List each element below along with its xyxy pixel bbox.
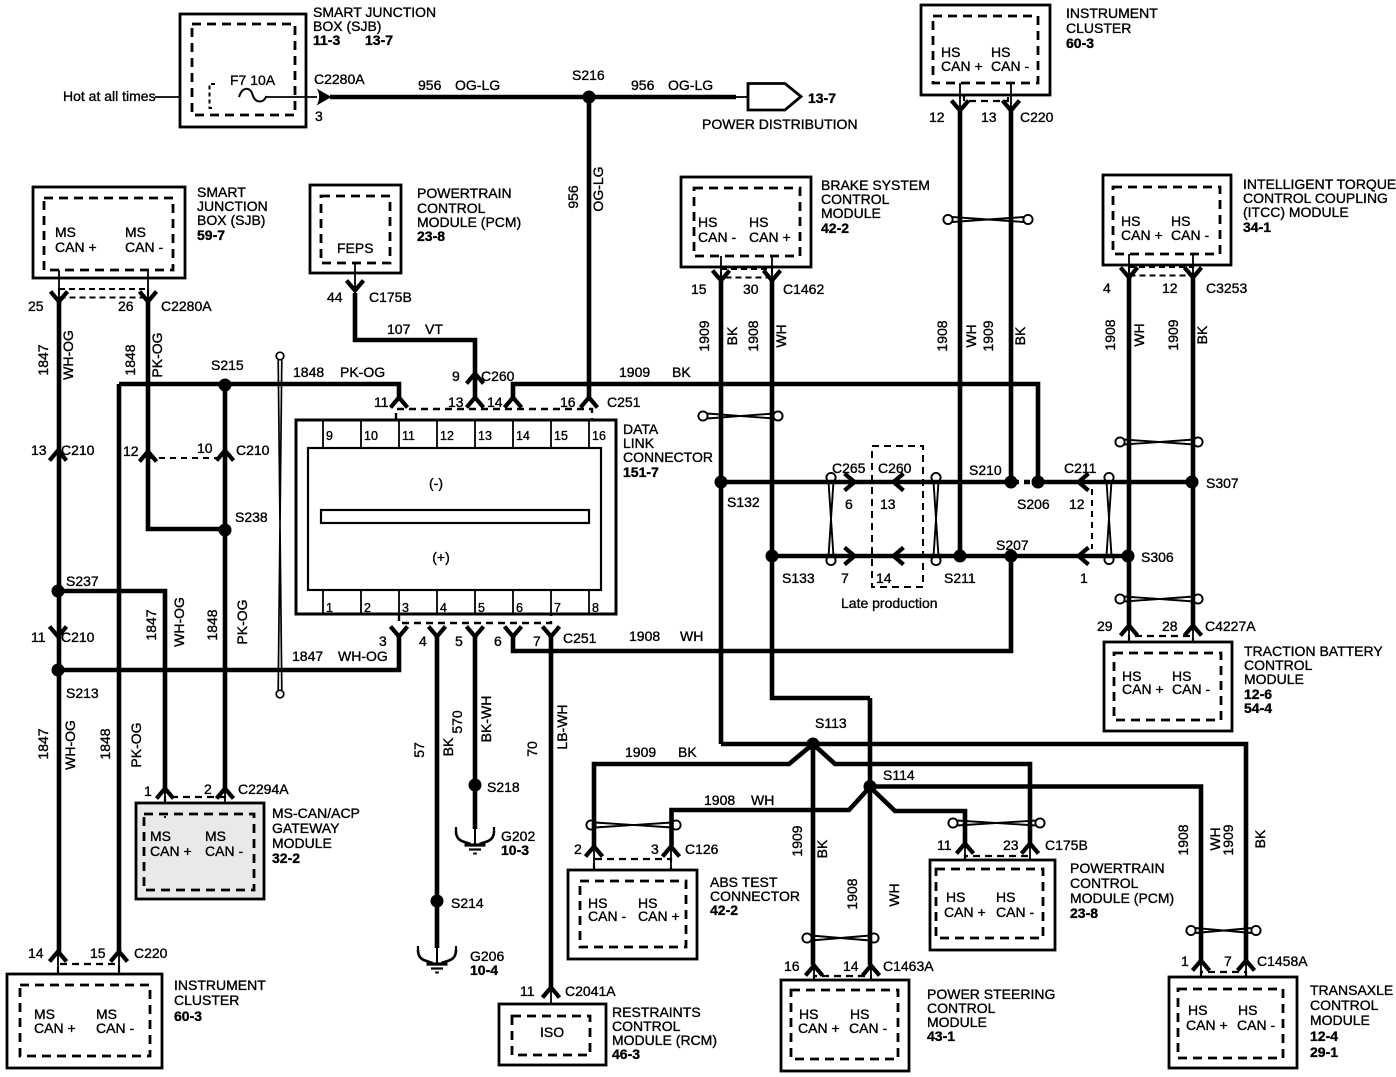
svg-text:16: 16	[784, 958, 800, 974]
svg-text:VT: VT	[425, 321, 443, 337]
connector C251 bottom pin at x=399	[391, 627, 408, 637]
wire ITCC CAN+ down to traction pin 29	[1127, 278, 1132, 625]
svg-text:26: 26	[118, 298, 134, 314]
svg-text:(+): (+)	[432, 549, 450, 565]
wire S114 branch to ABS pin 3	[672, 787, 871, 846]
svg-text:60-3: 60-3	[174, 1008, 202, 1024]
svg-text:9: 9	[326, 429, 333, 443]
connector C2294A pin 1	[157, 789, 174, 799]
wire brake CAN+ down to S133	[770, 281, 775, 556]
svg-text:1: 1	[144, 783, 152, 799]
wire gateway pin1 stub	[164, 790, 166, 816]
wire CAN+ S133 jog to S114 feed	[772, 556, 870, 698]
svg-text:PK-OG: PK-OG	[340, 364, 385, 380]
twisted pair C211	[1104, 473, 1113, 564]
svg-text:C260: C260	[878, 460, 912, 476]
svg-text:46-3: 46-3	[612, 1046, 640, 1062]
wire gateway pin2 stub	[224, 790, 226, 816]
connector C1463A dashed bracket	[814, 976, 871, 980]
svg-text:C1462: C1462	[783, 281, 824, 297]
splice S238	[219, 524, 232, 537]
wire brake CAN- down through S132 to S113 bus	[719, 281, 724, 744]
svg-text:CAN -: CAN -	[205, 843, 243, 859]
svg-text:C210: C210	[236, 442, 270, 458]
RCM ISO inner dashed	[512, 1016, 590, 1055]
svg-text:15: 15	[90, 945, 106, 961]
connector pin 26	[140, 292, 157, 302]
svg-text:1848: 1848	[293, 364, 324, 380]
connector C1462 dashed bracket	[721, 269, 772, 278]
wire 1909 BK S113 bus to transaxle pin 7	[721, 744, 1246, 960]
wire S113 branch to ABS pin 2	[594, 744, 813, 846]
svg-text:1: 1	[326, 601, 333, 615]
svg-text:C3253: C3253	[1206, 280, 1247, 296]
connector C220 pin 12	[952, 101, 969, 111]
svg-text:HS: HS	[698, 214, 717, 230]
svg-text:10-4: 10-4	[470, 962, 498, 978]
wire CAN+ backbone S133 to S306	[772, 554, 1128, 559]
wire SJB pin25 stub	[58, 270, 60, 299]
svg-text:CAN +: CAN +	[749, 229, 791, 245]
svg-text:CAN -: CAN -	[1237, 1017, 1275, 1033]
connector C126 pin 2	[586, 847, 603, 857]
power distribution arrow symbol	[748, 84, 801, 111]
svg-text:3: 3	[402, 601, 409, 615]
wire C210 pin 12 branch to S238	[148, 453, 225, 529]
wire 1847 WH-OG to DLC pin 3	[58, 637, 399, 670]
DLC slot bar	[321, 510, 589, 523]
svg-text:13-7: 13-7	[365, 32, 393, 48]
wire 57 BK DLC4 to ground	[435, 637, 440, 948]
svg-text:BK: BK	[440, 737, 456, 756]
svg-text:13: 13	[981, 109, 997, 125]
svg-text:C210: C210	[61, 629, 95, 645]
svg-text:16: 16	[592, 429, 606, 443]
svg-text:FEPS: FEPS	[337, 240, 374, 256]
svg-text:MS: MS	[205, 828, 226, 844]
svg-text:S215: S215	[211, 357, 244, 373]
svg-text:MODULE: MODULE	[821, 205, 881, 221]
svg-text:12: 12	[123, 443, 139, 459]
connector C2294A dashed bracket	[165, 797, 225, 803]
svg-text:1908: 1908	[844, 878, 860, 909]
svg-text:C2294A: C2294A	[238, 781, 289, 797]
connector C260 pin 13	[894, 474, 904, 491]
svg-text:4: 4	[1103, 280, 1111, 296]
svg-text:HS: HS	[1188, 1002, 1207, 1018]
svg-text:HS: HS	[1238, 1002, 1257, 1018]
twisted pair late production left	[826, 473, 835, 565]
connector C3253 pin 4	[1121, 268, 1138, 278]
svg-text:1908: 1908	[1102, 319, 1118, 350]
svg-text:OG-LG: OG-LG	[590, 166, 606, 211]
splice S211	[954, 550, 967, 563]
ground G202	[456, 817, 494, 854]
svg-text:3: 3	[379, 633, 387, 649]
svg-text:S210: S210	[969, 462, 1002, 478]
twisted pair late production right	[931, 473, 940, 565]
svg-text:32-2: 32-2	[272, 850, 300, 866]
wire PS pin14 stub	[870, 967, 872, 991]
svg-text:CAN -: CAN -	[96, 1020, 134, 1036]
DLC top pin ticks 9-16	[323, 420, 589, 448]
svg-text:2: 2	[364, 601, 371, 615]
splice S218	[469, 779, 482, 792]
svg-text:CAN +: CAN +	[944, 904, 986, 920]
connector C4227A dashed bracket	[1129, 636, 1193, 642]
connector C210 pin 13	[50, 451, 67, 461]
svg-text:1909: 1909	[789, 825, 805, 856]
gateway inner dashed	[144, 814, 254, 890]
wire 1908 WH IC to S211	[958, 111, 963, 556]
svg-text:6: 6	[845, 496, 853, 512]
svg-text:151-7: 151-7	[623, 464, 659, 480]
connector C210 pin 11	[50, 627, 67, 637]
connector C220 dashed bracket	[964, 94, 1008, 101]
svg-text:5: 5	[455, 633, 463, 649]
connector C3253 dashed bracket	[1129, 267, 1193, 276]
svg-text:BK-WH: BK-WH	[478, 696, 494, 743]
twisted pair PCM wires	[948, 818, 1044, 827]
svg-text:POWERTRAIN: POWERTRAIN	[1070, 860, 1165, 876]
svg-text:11: 11	[520, 983, 535, 999]
wire S215 down to gateway pin 2	[223, 385, 228, 790]
wire 956 OG-LG horizontal	[330, 95, 736, 100]
svg-text:BK: BK	[724, 326, 740, 345]
svg-text:POWER DISTRIBUTION: POWER DISTRIBUTION	[702, 116, 858, 132]
connector C175B pin 44	[347, 281, 364, 291]
DLC inner box	[308, 448, 601, 590]
svg-text:1: 1	[1080, 570, 1088, 586]
svg-text:15: 15	[554, 429, 568, 443]
svg-text:1909: 1909	[980, 320, 996, 351]
svg-text:7: 7	[533, 633, 541, 649]
svg-text:60-3: 60-3	[1066, 35, 1094, 51]
data link connector outer box	[296, 420, 616, 614]
svg-text:CAN +: CAN +	[1186, 1017, 1228, 1033]
svg-text:C220: C220	[134, 945, 168, 961]
svg-text:C175B: C175B	[369, 289, 412, 305]
wire ABS pin2 stub	[593, 848, 595, 882]
svg-text:CAN +: CAN +	[34, 1020, 76, 1036]
wire 956 OG-LG vertical to DLC pin 16	[587, 97, 592, 399]
svg-text:5: 5	[478, 601, 485, 615]
svg-text:15: 15	[691, 281, 707, 297]
svg-text:59-7: 59-7	[197, 227, 225, 243]
svg-text:CLUSTER: CLUSTER	[1066, 20, 1131, 36]
twisted pair ITCC lower	[1115, 594, 1202, 603]
wire TA pin7 stub	[1245, 962, 1247, 990]
splice S207	[1005, 550, 1018, 563]
svg-text:S237: S237	[66, 573, 99, 589]
connector C251 bottom pin at x=551	[543, 627, 560, 637]
svg-text:57: 57	[411, 742, 427, 758]
fuse holder bracket	[210, 84, 216, 108]
brake module inner dashed	[694, 188, 800, 256]
svg-text:1848: 1848	[204, 609, 220, 640]
svg-text:BK: BK	[1252, 829, 1268, 848]
wire PCM pin23 stub	[1029, 845, 1031, 870]
wire 1848 PK-OG bus down to cluster	[117, 384, 122, 953]
connector C1458A pin 7	[1238, 961, 1255, 971]
splice S210	[1005, 476, 1018, 489]
svg-text:S307: S307	[1206, 475, 1239, 491]
svg-text:OG-LG: OG-LG	[668, 77, 713, 93]
wire S114 branch to PCM pin 11	[870, 787, 965, 843]
svg-text:C260: C260	[481, 368, 515, 384]
ABS test connector outer	[568, 870, 697, 959]
twisted pair ABS wires	[586, 820, 680, 829]
svg-text:S207: S207	[996, 537, 1029, 553]
svg-text:956: 956	[418, 77, 442, 93]
splice S237	[52, 585, 65, 598]
wire ITCC pin12 stub	[1192, 254, 1194, 278]
svg-text:C4227A: C4227A	[1205, 618, 1256, 634]
svg-text:S306: S306	[1141, 549, 1174, 565]
svg-text:WH: WH	[1131, 323, 1147, 346]
svg-text:WH: WH	[751, 792, 774, 808]
wire FEPS stub	[354, 263, 356, 291]
late production dashed box	[872, 446, 923, 587]
connector C211 pin 1	[1079, 548, 1089, 565]
wire thin lead to power distribution	[736, 96, 748, 98]
wire S237 to gateway pin 1	[58, 591, 165, 790]
connector C1462 pin 15	[713, 271, 730, 281]
svg-text:HS: HS	[946, 889, 965, 905]
splice S215	[219, 379, 232, 392]
svg-text:13: 13	[478, 429, 492, 443]
svg-text:WH: WH	[963, 324, 979, 347]
svg-text:3: 3	[315, 108, 323, 124]
svg-text:14: 14	[876, 570, 892, 586]
svg-text:2: 2	[204, 781, 212, 797]
svg-text:34-1: 34-1	[1243, 219, 1271, 235]
svg-text:23: 23	[1003, 837, 1019, 853]
wire IC pin15 stub	[118, 953, 120, 986]
connector C211 dashed link	[1091, 489, 1093, 549]
instrument cluster top outer	[921, 5, 1050, 95]
powertrain control module bottom outer	[930, 860, 1055, 950]
svg-text:WH-OG: WH-OG	[171, 597, 187, 647]
svg-text:BK: BK	[1194, 325, 1210, 344]
svg-text:11: 11	[374, 394, 389, 410]
svg-text:23-8: 23-8	[417, 228, 445, 244]
svg-text:1848: 1848	[97, 728, 113, 759]
svg-text:3: 3	[651, 841, 659, 857]
svg-text:INSTRUMENT: INSTRUMENT	[174, 977, 266, 993]
svg-text:CAN -: CAN -	[125, 239, 163, 255]
svg-text:12: 12	[440, 429, 454, 443]
splice S113	[807, 738, 820, 751]
connector pin 25	[51, 292, 68, 302]
svg-text:14: 14	[516, 429, 530, 443]
connector C175B pin 11	[957, 844, 974, 854]
svg-text:11: 11	[402, 429, 415, 443]
TA inner dashed	[1178, 989, 1283, 1058]
connector C251 pin 11	[391, 398, 408, 408]
svg-text:11: 11	[31, 629, 46, 645]
connector C251 pin 16	[581, 398, 598, 408]
svg-text:10-3: 10-3	[501, 842, 529, 858]
svg-text:CAN +: CAN +	[150, 843, 192, 859]
svg-text:42-2: 42-2	[821, 220, 849, 236]
wire TA pin1 stub	[1200, 962, 1202, 990]
svg-text:S132: S132	[727, 494, 760, 510]
splice S306	[1122, 550, 1135, 563]
svg-text:CAN +: CAN +	[1122, 681, 1164, 697]
svg-text:HS: HS	[996, 889, 1015, 905]
splice S213	[52, 664, 65, 677]
svg-text:CAN +: CAN +	[1121, 227, 1163, 243]
svg-text:MS-CAN/ACP: MS-CAN/ACP	[272, 805, 360, 821]
transaxle control module outer	[1169, 977, 1297, 1068]
wire fuse feed thin	[155, 96, 240, 98]
svg-text:CAN +: CAN +	[55, 239, 97, 255]
PCM bottom inner dashed	[936, 869, 1043, 938]
wire PS pin16 stub	[813, 967, 815, 991]
svg-text:CAN -: CAN -	[588, 908, 626, 924]
splice S206	[1032, 476, 1045, 489]
svg-text:(ITCC) MODULE: (ITCC) MODULE	[1243, 204, 1349, 220]
DLC bottom pin ticks 1-8	[323, 590, 589, 614]
svg-text:BK: BK	[1012, 326, 1028, 345]
svg-text:43-1: 43-1	[927, 1028, 955, 1044]
connector C175B dashed bracket	[965, 856, 1030, 860]
svg-text:C265: C265	[832, 460, 866, 476]
wire 1908 WH S114 bus to transaxle pin 1	[870, 787, 1201, 961]
smart junction box SJB 59-7 outer	[33, 187, 185, 278]
svg-text:S211: S211	[944, 570, 976, 586]
twisted pair PS wires	[802, 933, 878, 942]
svg-text:7: 7	[554, 601, 561, 615]
svg-text:S114: S114	[883, 767, 915, 783]
svg-text:30: 30	[743, 281, 759, 297]
svg-text:CAN +: CAN +	[798, 1020, 840, 1036]
svg-text:1848: 1848	[122, 344, 138, 375]
wire brake CAN+ stub	[771, 256, 773, 281]
svg-text:S238: S238	[235, 509, 268, 525]
connector C251 pin 14	[505, 398, 522, 408]
wire ITCC CAN- down to traction pin 28	[1191, 278, 1196, 625]
svg-text:HS: HS	[749, 214, 768, 230]
wire 1909 BK S113 down to PS pin 16	[811, 744, 816, 965]
SJB fuse inner dashed	[192, 24, 295, 115]
connector C4227A pin 28	[1185, 626, 1202, 636]
connector C265 pin 7	[845, 548, 855, 565]
svg-text:10: 10	[197, 440, 213, 456]
IC bottom inner dashed	[20, 985, 150, 1056]
svg-text:29-1: 29-1	[1310, 1044, 1338, 1060]
wire 107 VT to DLC pin 13	[355, 293, 475, 399]
svg-text:13: 13	[31, 442, 47, 458]
connector C1462 pin 30	[764, 271, 781, 281]
connector C251 top dashed bracket	[396, 409, 592, 420]
connector C175B pin 23	[1022, 844, 1039, 854]
svg-text:1908: 1908	[629, 628, 660, 644]
connector C2041A pin 11	[543, 988, 560, 998]
connector C126 dashed bracket	[594, 859, 671, 870]
connector C210 pin 12	[140, 452, 157, 462]
wire ITCC pin4 stub	[1128, 254, 1130, 278]
svg-text:CAN +: CAN +	[638, 908, 680, 924]
svg-text:F7 10A: F7 10A	[230, 72, 276, 88]
svg-text:CAN -: CAN -	[1172, 681, 1210, 697]
ITCC inner dashed	[1113, 187, 1220, 254]
svg-text:GATEWAY: GATEWAY	[272, 820, 340, 836]
svg-text:C2280A: C2280A	[161, 298, 212, 314]
ITCC module outer	[1103, 175, 1231, 265]
svg-text:54-4: 54-4	[1244, 700, 1272, 716]
svg-text:CAN -: CAN -	[1171, 227, 1209, 243]
svg-text:S218: S218	[487, 779, 520, 795]
svg-text:956: 956	[631, 77, 655, 93]
splice S132	[715, 476, 728, 489]
svg-text:C251: C251	[563, 630, 597, 646]
svg-text:CAN -: CAN -	[849, 1020, 887, 1036]
connector C251 bottom pin at x=475	[467, 627, 484, 637]
svg-text:(-): (-)	[429, 475, 443, 491]
splice S216	[583, 91, 596, 104]
wire RCM stub	[550, 989, 552, 1017]
svg-text:13-7: 13-7	[808, 90, 836, 106]
wire ABS pin3 stub	[670, 848, 672, 882]
svg-text:14: 14	[843, 958, 859, 974]
svg-text:1909: 1909	[625, 744, 656, 760]
wire SJB pin26 stub	[147, 270, 149, 299]
wire PCM pin11 stub	[964, 845, 966, 870]
connector C2280A dashed bracket	[59, 289, 148, 298]
svg-text:BK: BK	[814, 839, 830, 858]
svg-text:CAN +: CAN +	[941, 58, 983, 74]
svg-text:956: 956	[565, 185, 581, 209]
wire 1848 PK-OG from pin 26	[146, 299, 151, 453]
wire 1909 BK bus DLC14 to S206	[513, 384, 1038, 482]
wire dashed S210-S206 link	[1013, 480, 1036, 485]
MS-CAN ACP gateway module outer	[136, 803, 264, 899]
svg-text:C220: C220	[1020, 109, 1054, 125]
connector C220 pin 14	[50, 952, 67, 962]
svg-text:OG-LG: OG-LG	[455, 77, 500, 93]
svg-text:WH: WH	[886, 883, 902, 906]
svg-text:C1463A: C1463A	[883, 958, 934, 974]
wire S113 branch to PCM pin 23	[813, 744, 1030, 843]
splice S133	[766, 550, 779, 563]
svg-text:TRANSAXLE: TRANSAXLE	[1310, 982, 1393, 998]
svg-text:C2280A: C2280A	[314, 71, 365, 87]
svg-text:C211: C211	[1064, 460, 1097, 476]
SJB 59-7 inner dashed	[44, 198, 173, 270]
connector C210 dashed link 12-10	[148, 457, 225, 459]
svg-text:BK: BK	[678, 744, 697, 760]
svg-text:570: 570	[449, 710, 465, 734]
svg-text:2: 2	[574, 841, 582, 857]
svg-text:Late production: Late production	[841, 595, 938, 611]
wire fuse to C2280A thin	[266, 96, 317, 98]
connector C126 pin 3	[663, 847, 680, 857]
connector C210 pin 10	[217, 451, 234, 461]
svg-text:MS: MS	[125, 224, 146, 240]
svg-text:6: 6	[494, 633, 502, 649]
svg-text:LB-WH: LB-WH	[554, 704, 570, 749]
svg-text:ISO: ISO	[540, 1024, 564, 1040]
svg-text:1847: 1847	[143, 609, 159, 640]
connector C1463A pin 14	[863, 966, 880, 976]
connector C265 pin 6	[845, 474, 855, 491]
wire brake CAN- stub	[720, 256, 722, 281]
wire 1908 WH down through S114 to PS pin 14	[868, 698, 873, 965]
svg-text:INSTRUMENT: INSTRUMENT	[1066, 5, 1158, 21]
svg-text:1847: 1847	[35, 728, 51, 759]
